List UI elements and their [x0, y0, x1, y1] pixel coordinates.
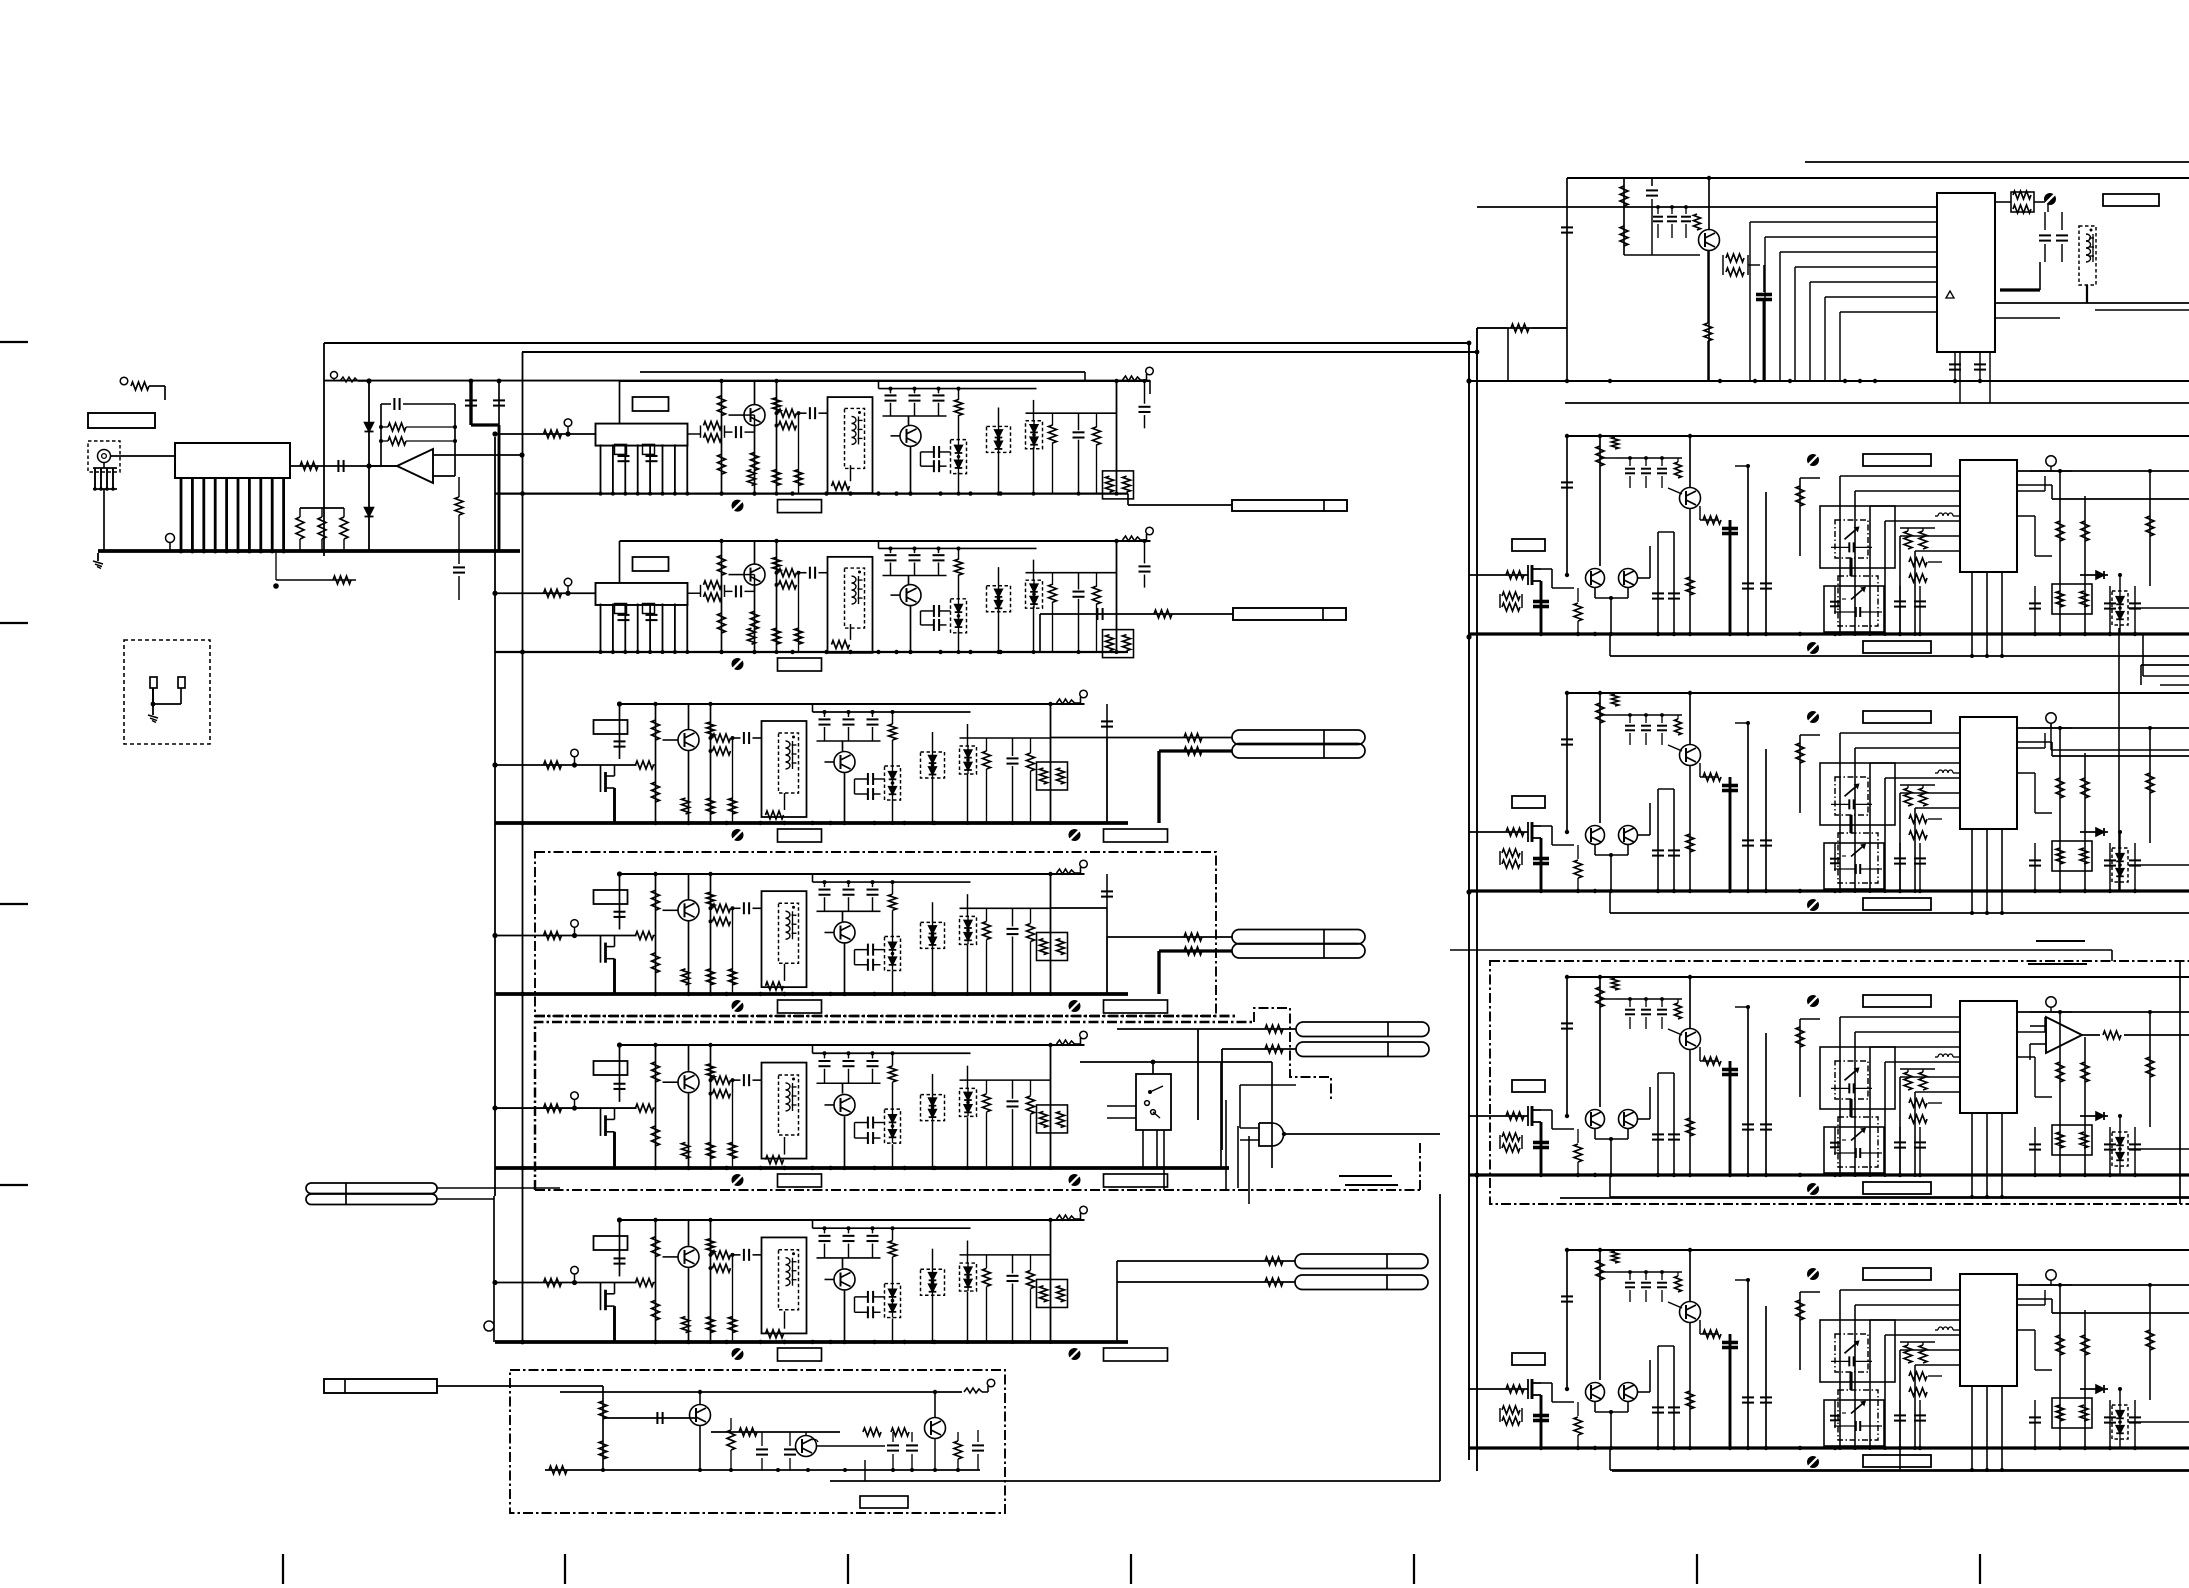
- resistor: [889, 1241, 897, 1257]
- IC1 block: [1937, 193, 1995, 352]
- delay line DL: [495, 592, 596, 594]
- resistor: [718, 454, 726, 474]
- terminal: [484, 1321, 494, 1331]
- op-amp IC102: [397, 449, 433, 483]
- IC101 input IC: [175, 443, 290, 478]
- transistor QF1: [678, 1246, 699, 1267]
- diode pair: [2112, 1132, 2128, 1166]
- resistor R107: [388, 437, 406, 445]
- below-ground rail: [1610, 1196, 2189, 1198]
- coupling caps: [867, 1117, 869, 1129]
- wire: [817, 1445, 885, 1447]
- equals mark: [1339, 1175, 1392, 1177]
- riser: [1566, 1250, 1568, 1389]
- op-amp IC4b: [2046, 1017, 2082, 1053]
- cap right: [977, 1430, 979, 1442]
- signal label box R1: [2103, 194, 2159, 206]
- capacitor: [646, 614, 658, 616]
- electrolytic R1: [1763, 265, 1765, 292]
- wire: [688, 874, 690, 899]
- frame details: [766, 1330, 784, 1338]
- coil L (dashed): [779, 903, 799, 963]
- IC101 pin bus: [180, 478, 183, 551]
- wire: [688, 704, 690, 729]
- sub rail: [813, 711, 971, 713]
- capacitor row: [890, 548, 892, 553]
- IC pins left: [1840, 1289, 1960, 1291]
- capacitor row: [890, 389, 892, 394]
- mid caps: [1657, 532, 1659, 634]
- op-amp wires: [2082, 1034, 2100, 1036]
- diode pair (dashed): [951, 599, 967, 633]
- resistor: [955, 399, 963, 415]
- riser: [1566, 693, 1568, 832]
- transistor Q71: [690, 1405, 711, 1426]
- input network: [495, 1107, 637, 1109]
- resistor: [652, 1126, 660, 1146]
- no-connection mark bottom: [1807, 899, 1819, 911]
- thick rail to bus: [469, 381, 472, 425]
- wire: [699, 1426, 701, 1470]
- cap row R1: [1624, 254, 1700, 256]
- IC pins left: [1840, 475, 1960, 477]
- terminal: [964, 1388, 982, 1393]
- no-connection mark: [732, 658, 744, 670]
- resistor R104: [340, 517, 348, 539]
- R5 bottom wires: [1612, 1470, 2189, 1472]
- resistor: [1703, 1057, 1721, 1065]
- diode pair (dashed): [921, 922, 945, 948]
- capacitor: [1096, 608, 1098, 620]
- no-connection mark 2: [1069, 829, 1081, 841]
- frame details: [766, 1156, 784, 1164]
- diode pair (dashed): [960, 746, 977, 774]
- wire: [688, 751, 690, 823]
- wire mid: [960, 737, 1051, 739]
- connector pills F: [1295, 1254, 1428, 1269]
- output network E: [1198, 1028, 1296, 1030]
- signal label box 2: [1104, 829, 1168, 842]
- resistor: [1686, 577, 1694, 595]
- resistor pair input: [1499, 1408, 1501, 1422]
- thick stub: [613, 788, 616, 823]
- IC pins right wires: [2017, 727, 2189, 729]
- terminal (top right): [1057, 1215, 1075, 1220]
- vertical feed pair: [1747, 466, 1749, 634]
- process module 4 ground bus: [1469, 1173, 2189, 1176]
- no-connection mark: [1807, 1268, 1819, 1280]
- process module 5 ground bus: [1469, 1446, 2189, 1449]
- wire: [842, 911, 844, 921]
- resistor: [1049, 425, 1057, 443]
- wire: [844, 773, 846, 823]
- coil L (dashed): [779, 1250, 799, 1310]
- resistor: [729, 798, 737, 814]
- base loop R1: [1722, 255, 1724, 275]
- transistor QD1: [678, 900, 699, 921]
- amp module A top rail: [620, 380, 1151, 382]
- wire riser: [619, 704, 621, 759]
- wire riser 3: [776, 381, 778, 494]
- wire riser 3: [710, 704, 712, 823]
- diode pair (dashed): [885, 937, 901, 971]
- diode pair (dashed): [1026, 580, 1043, 608]
- diode output: [2080, 1388, 2108, 1390]
- FET Q input: [600, 1283, 602, 1311]
- inset detail box (dashed): [124, 640, 210, 744]
- transistor QA2: [900, 425, 921, 446]
- resistor col: [958, 389, 960, 400]
- transistor Q5b: [1619, 1383, 1638, 1402]
- trimmer CT1 (dash-dot): [1835, 1334, 1868, 1372]
- terminal: [2046, 997, 2056, 1007]
- right edge wires: [2017, 741, 2052, 743]
- below rail R1: [1565, 402, 2189, 404]
- thick stub: [1540, 838, 1543, 891]
- resistor: [795, 470, 803, 486]
- resistor: [636, 1279, 654, 1287]
- bottom-right rail: [1560, 1197, 2189, 1199]
- trimmer CT2 (dash-dot): [1838, 1390, 1878, 1440]
- wire: [934, 1392, 936, 1418]
- resistor: [955, 559, 963, 575]
- IC bottom pin dots: [1970, 1195, 1974, 1199]
- resistor: [1093, 586, 1101, 604]
- resistor: [682, 798, 690, 814]
- capacitor C103: [465, 399, 477, 401]
- wire riser 2: [655, 704, 657, 823]
- connector rect A: [1232, 500, 1347, 511]
- signal label box: [778, 658, 822, 671]
- IC pins right wires: [2017, 1011, 2189, 1013]
- sub wire below bus: [276, 579, 356, 581]
- FET input: [1527, 822, 1529, 842]
- wire riser 2: [655, 874, 657, 994]
- resistor: [1596, 703, 1604, 723]
- wire R3 terminal drop: [2050, 723, 2052, 750]
- thick stub: [1540, 1122, 1543, 1175]
- thick stub: [613, 1306, 616, 1342]
- terminal: [571, 920, 579, 928]
- resistor: [544, 932, 562, 940]
- mid caps: [1657, 789, 1659, 891]
- delay line pins: [600, 603, 602, 652]
- coil L (dashed): [779, 1075, 799, 1135]
- delay coil (dashed): [2079, 226, 2096, 285]
- transistor Q4c: [1680, 1029, 1701, 1050]
- capacitor: [618, 455, 630, 457]
- osc block frame: [762, 1237, 807, 1333]
- right output steps: [2035, 1369, 2052, 1371]
- right bottom caps: [2034, 1127, 2036, 1175]
- resistor pair: [732, 1080, 734, 1093]
- sub rail: [813, 1227, 971, 1229]
- input wire from bus: [1469, 1388, 1528, 1390]
- R1 ground: [1470, 380, 2189, 382]
- resistor: [1909, 1115, 1927, 1123]
- frame details: [766, 982, 784, 990]
- junction input E: [493, 1106, 498, 1111]
- capacitor: [2104, 1416, 2116, 1418]
- resistor: [739, 1428, 757, 1436]
- wire corner R2 out: [2142, 634, 2144, 676]
- resistor: [729, 1142, 737, 1158]
- terminal (top right): [1123, 376, 1141, 381]
- wire: [688, 1094, 690, 1168]
- capacitor: [614, 1257, 626, 1259]
- no-connection mark: [1807, 995, 1819, 1007]
- elcap small: [1834, 1400, 1836, 1428]
- resistor R108: [455, 497, 463, 515]
- wire riser: [619, 874, 621, 929]
- resistor: [544, 1104, 562, 1112]
- capacitor: [743, 902, 745, 914]
- electrolytic vertical: [1729, 777, 1732, 891]
- diode pair: [2112, 848, 2128, 882]
- resistor: [1574, 1144, 1582, 1162]
- wire: [1689, 693, 1691, 744]
- trimmer CT1 (dash-dot): [1835, 777, 1868, 815]
- diode pair (dashed): [921, 752, 945, 778]
- input network: [495, 935, 637, 937]
- wire: [688, 1220, 690, 1246]
- cap stub: [1012, 738, 1014, 756]
- resistor: [1909, 558, 1927, 566]
- FET Q input: [600, 765, 602, 792]
- resistor: [1675, 719, 1682, 735]
- transistor Q3b: [1619, 826, 1638, 845]
- terminal (top right): [1057, 699, 1075, 704]
- signal label box: [778, 1174, 822, 1187]
- process module 4 top rail: [1567, 976, 2189, 978]
- capacitor: [1561, 1022, 1573, 1024]
- terminal: [571, 749, 579, 757]
- res pair box: [2052, 1398, 2092, 1428]
- resistor: [751, 452, 759, 470]
- right resistors: [2059, 471, 2061, 634]
- capacitor: [743, 1249, 745, 1261]
- terminal: [2046, 713, 2056, 723]
- no-connection mark R1: [2044, 193, 2056, 205]
- cap row top: [1615, 1271, 1682, 1273]
- module A right extras: [1084, 372, 1086, 381]
- diode output: [2080, 1115, 2108, 1117]
- resistor: [1596, 1260, 1604, 1280]
- ic top feed: [1799, 1292, 1801, 1370]
- module A extra top rail: [324, 380, 1150, 382]
- no-connection mark: [732, 1348, 744, 1360]
- resistor loop box: [1103, 630, 1134, 658]
- junction input B: [493, 591, 498, 596]
- wire: [437, 1385, 603, 1387]
- capacitor: [743, 732, 745, 744]
- resistor: [652, 1237, 660, 1257]
- signal label box 2: [1104, 1000, 1168, 1013]
- wire IC101 out: [290, 465, 397, 467]
- wire: [369, 465, 397, 467]
- osc top rail: [560, 1391, 962, 1393]
- resistor pair: [798, 413, 800, 425]
- part label box left: [1512, 1080, 1545, 1092]
- resistor: [889, 724, 897, 740]
- transistor Q4b: [1619, 1110, 1638, 1129]
- part label box left: [1512, 539, 1545, 551]
- FET input: [1527, 1106, 1529, 1126]
- IC pins bottom: [1971, 829, 1973, 913]
- fold tick bottom 4: [1130, 1554, 1132, 1584]
- resistor col: [892, 1053, 894, 1065]
- coil L (dashed): [845, 568, 865, 628]
- IC bottom pin dots: [1970, 911, 1974, 915]
- contact b: [178, 677, 185, 688]
- resistor: [748, 628, 756, 644]
- wire riser right: [1439, 1194, 1441, 1481]
- diode pair (dashed): [960, 916, 977, 944]
- capacitor: [809, 407, 811, 419]
- resistor: [707, 1239, 715, 1253]
- right resistors: [2059, 728, 2061, 891]
- capacitor row: [824, 882, 826, 887]
- transistor Q5a: [1586, 1383, 1605, 1402]
- signal label box bottom: [1863, 641, 1931, 653]
- trimmer CT2 (dash-dot): [1838, 1117, 1878, 1167]
- thick stub: [613, 959, 616, 994]
- wire: [908, 576, 910, 585]
- resistor: [636, 1104, 654, 1112]
- wire: [688, 1268, 690, 1342]
- amp module F top rail: [620, 1219, 1085, 1221]
- capacitor row: [824, 712, 826, 717]
- no-connection mark: [732, 500, 744, 512]
- wire mid: [1026, 572, 1117, 574]
- no-connection mark: [1807, 711, 1819, 723]
- terminal: [571, 1266, 579, 1274]
- wire loop left: [1220, 1062, 1222, 1168]
- process module 3 ground bus: [1469, 889, 2189, 892]
- diode pair (dashed): [885, 766, 901, 800]
- terminal: [2046, 1270, 2056, 1280]
- wire right: [2128, 1421, 2189, 1423]
- terminal (top right): [1057, 869, 1075, 874]
- capacitor: [2104, 859, 2116, 861]
- resistor R102: [296, 517, 304, 539]
- part label box: [594, 1061, 628, 1075]
- resistor: [1049, 584, 1057, 602]
- dash-dot right E: [1419, 1140, 1421, 1190]
- resistor: [707, 1142, 715, 1158]
- resistor: [1506, 1385, 1524, 1393]
- resistor: [707, 1064, 715, 1078]
- transistor QB1: [744, 564, 765, 585]
- wire: [844, 944, 846, 994]
- wire: [493, 1196, 495, 1342]
- ic top feed: [1799, 735, 1801, 813]
- capacitor: [646, 455, 658, 457]
- triangle mark: [1946, 291, 1954, 298]
- ground bus module D: [495, 992, 1128, 996]
- signal label box: [778, 829, 822, 842]
- resistor loop box: [1037, 1105, 1068, 1133]
- resistor col: [892, 882, 894, 894]
- frame details: [832, 482, 850, 490]
- wire: [844, 1116, 846, 1168]
- wire: [1708, 251, 1710, 381]
- mid bottom caps: [1899, 1400, 1901, 1448]
- wire: [433, 454, 522, 456]
- dash-dot bottom E: [535, 1189, 1420, 1191]
- transistor Q4a: [1586, 1110, 1605, 1129]
- wire riser 3: [776, 541, 778, 652]
- riser 2: [1599, 1250, 1601, 1380]
- right riser: [1050, 704, 1052, 823]
- part label box: [633, 397, 669, 411]
- resistor: [652, 890, 660, 910]
- transistor Q2a: [1586, 569, 1605, 588]
- process module 5 top rail: [1567, 1249, 2189, 1251]
- terminal (top right): [1123, 536, 1141, 541]
- right riser: [1050, 1045, 1052, 1168]
- diode pair (dashed): [885, 1109, 901, 1143]
- wire: [910, 446, 912, 493]
- wire riser: [619, 1045, 621, 1102]
- IC5 block: [1960, 1274, 2017, 1386]
- part label box: [633, 557, 669, 571]
- base network: [688, 433, 701, 435]
- transistor QD2: [834, 922, 855, 943]
- resistor pair: [732, 738, 734, 751]
- wire right: [2128, 607, 2189, 609]
- resistor: [1686, 834, 1694, 852]
- thick stub: [1540, 1395, 1543, 1448]
- resistor: [954, 1441, 962, 1459]
- wire: [498, 381, 500, 425]
- gate feed verticals: [1237, 1126, 1239, 1188]
- amp module D top rail: [620, 873, 1085, 875]
- right resistors: [2059, 1012, 2061, 1175]
- wire top-left vertical: [323, 343, 325, 556]
- capacitor: [618, 614, 630, 616]
- wire: [688, 921, 690, 994]
- resistor: [983, 921, 991, 939]
- transistor QA1: [744, 405, 765, 426]
- amp module C top rail: [620, 703, 1085, 705]
- junction dots on ground: [653, 992, 657, 996]
- IC pins right wires: [2017, 1284, 2189, 1286]
- cap row top: [1615, 714, 1682, 716]
- rail x522: [522, 352, 524, 1342]
- equals marks right: [2036, 940, 2085, 942]
- capacitor: [614, 1083, 626, 1085]
- capacitor: [2104, 1143, 2116, 1145]
- thick link R1: [2000, 288, 2040, 291]
- thick link: [1849, 1372, 1852, 1390]
- module B output wire: [1040, 613, 1233, 615]
- signal label box bottom: [1863, 1455, 1931, 1467]
- wire mid: [960, 1254, 1051, 1256]
- below-ground rail: [1610, 912, 2189, 914]
- amp module B top rail: [620, 540, 1151, 542]
- delay line pins: [600, 444, 602, 493]
- resistor: [1675, 462, 1682, 478]
- resistor: [1574, 603, 1582, 621]
- transistor QF2: [834, 1269, 855, 1290]
- emitter wires: [1594, 845, 1596, 855]
- resistor pair: [798, 573, 800, 585]
- signal label box: [778, 1348, 822, 1361]
- resistor pair: [732, 908, 734, 921]
- resistor: [682, 1142, 690, 1158]
- right riser: [1116, 381, 1118, 494]
